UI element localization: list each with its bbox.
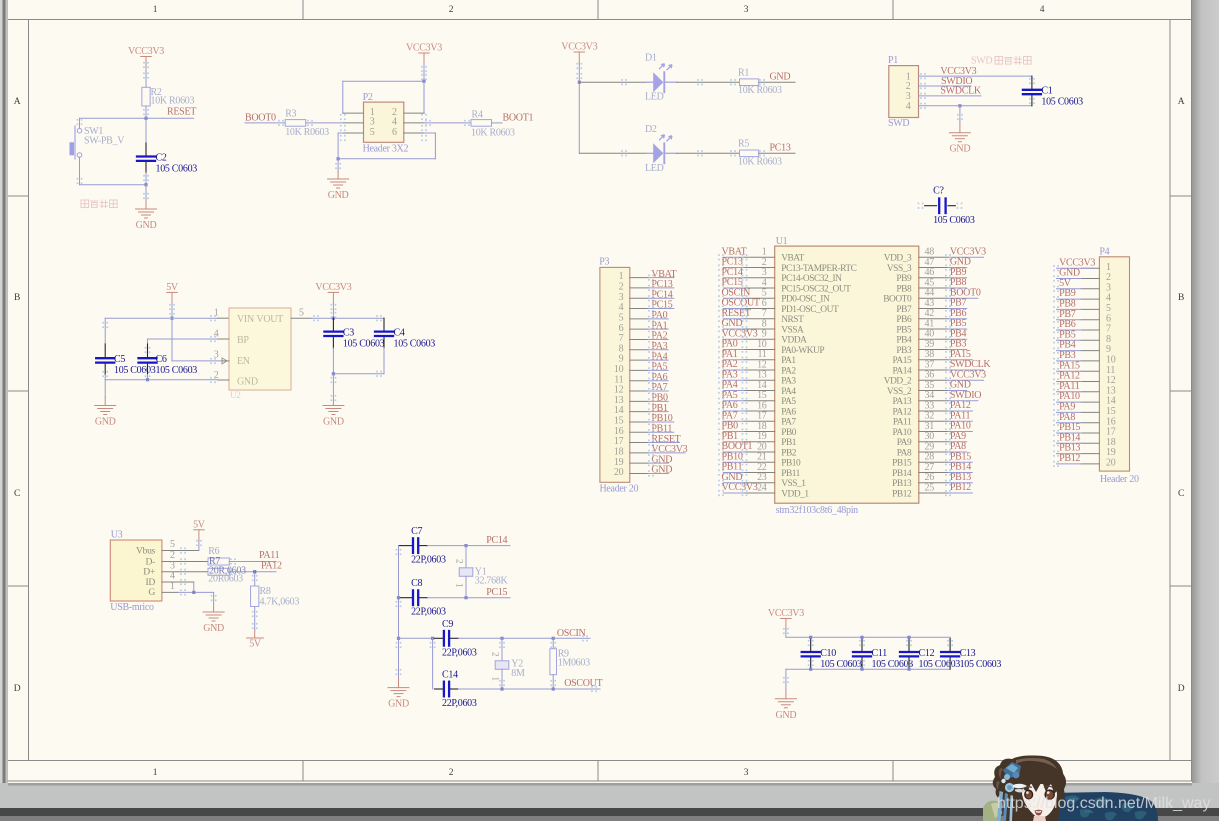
svg-text:PB11: PB11: [781, 469, 800, 479]
svg-text:D: D: [14, 684, 21, 694]
svg-text:C?: C?: [933, 186, 944, 197]
svg-text:ID: ID: [145, 577, 155, 588]
svg-text:PA3: PA3: [781, 377, 796, 387]
svg-text:C8: C8: [411, 578, 422, 589]
svg-text:PA4: PA4: [781, 387, 796, 397]
svg-text:VSS_3: VSS_3: [887, 264, 912, 274]
svg-text:105 C0603: 105 C0603: [933, 215, 975, 226]
svg-text:4: 4: [170, 571, 175, 582]
svg-text:PC15: PC15: [486, 587, 507, 598]
svg-text:SWDCLK: SWDCLK: [940, 86, 982, 97]
svg-text:BOOT1: BOOT1: [503, 113, 534, 124]
svg-text:PB9: PB9: [896, 274, 912, 284]
svg-text:1: 1: [491, 677, 501, 681]
svg-text:C9: C9: [442, 619, 453, 630]
svg-text:P1: P1: [888, 55, 898, 66]
svg-text:105 C0603: 105 C0603: [820, 659, 862, 670]
svg-text:GND: GND: [770, 71, 791, 82]
svg-text:GND: GND: [950, 144, 971, 155]
svg-text:3: 3: [744, 5, 749, 15]
svg-text:C13: C13: [960, 648, 976, 659]
svg-text:2: 2: [449, 768, 454, 778]
svg-text:GND: GND: [95, 417, 116, 428]
svg-text:105 C0603: 105 C0603: [919, 659, 961, 670]
svg-text:105 C0603: 105 C0603: [156, 163, 198, 174]
svg-text:1: 1: [153, 768, 158, 778]
svg-text:PB14: PB14: [892, 469, 912, 479]
svg-text:32.768K: 32.768K: [475, 576, 509, 587]
svg-text:5V: 5V: [166, 282, 179, 293]
svg-text:PD0-OSC_IN: PD0-OSC_IN: [781, 295, 830, 305]
svg-text:GND: GND: [323, 417, 344, 428]
svg-text:4.7K,0603: 4.7K,0603: [260, 596, 300, 607]
svg-text:D: D: [1178, 684, 1185, 694]
svg-text:VDD_1: VDD_1: [781, 489, 809, 499]
svg-text:2: 2: [455, 559, 465, 563]
svg-text:1: 1: [455, 583, 465, 587]
svg-text:LED: LED: [645, 92, 664, 103]
svg-text:PB15: PB15: [892, 459, 912, 469]
svg-text:10K R0603: 10K R0603: [151, 96, 195, 107]
svg-text:NRST: NRST: [781, 315, 804, 325]
svg-text:SWD: SWD: [888, 118, 909, 129]
svg-text:BOOT0: BOOT0: [245, 113, 276, 124]
svg-text:VCC3V3: VCC3V3: [722, 482, 758, 493]
svg-text:VCC3V3: VCC3V3: [561, 42, 597, 53]
svg-text:10K R0603: 10K R0603: [285, 127, 329, 138]
svg-text:105 C0603: 105 C0603: [156, 365, 198, 376]
svg-text:G: G: [148, 587, 155, 598]
svg-text:5V: 5V: [249, 639, 262, 650]
svg-text:105 C0603: 105 C0603: [960, 659, 1002, 670]
svg-text:PA12: PA12: [892, 407, 911, 417]
svg-text:PA6: PA6: [781, 407, 796, 417]
svg-text:VDD_3: VDD_3: [884, 254, 912, 264]
svg-text:C7: C7: [411, 526, 422, 537]
svg-text:Header 20: Header 20: [600, 484, 639, 495]
svg-text:D1: D1: [645, 53, 657, 64]
svg-text:PB6: PB6: [896, 315, 912, 325]
svg-text:5: 5: [370, 127, 375, 138]
svg-text:Vbus: Vbus: [136, 545, 156, 556]
svg-text:4: 4: [1040, 5, 1045, 15]
svg-text:GND: GND: [651, 465, 672, 476]
svg-text:Header 3X2: Header 3X2: [363, 144, 409, 155]
svg-text:20: 20: [1106, 458, 1116, 469]
svg-text:PA14: PA14: [892, 366, 911, 376]
svg-text:20R0603: 20R0603: [208, 574, 243, 585]
svg-text:PB8: PB8: [896, 284, 912, 294]
svg-text:U2: U2: [230, 390, 240, 400]
svg-text:D2: D2: [645, 124, 657, 135]
svg-text:SWD: SWD: [971, 56, 992, 67]
svg-text:VIN: VIN: [237, 314, 254, 325]
svg-text:8M: 8M: [511, 668, 525, 679]
svg-text:R4: R4: [472, 110, 483, 121]
svg-text:PA11: PA11: [259, 550, 280, 561]
svg-text:VCC3V3: VCC3V3: [406, 43, 442, 54]
svg-text:VCC3V3: VCC3V3: [315, 282, 351, 293]
svg-text:C3: C3: [343, 327, 354, 338]
svg-text:PB13: PB13: [892, 479, 912, 489]
svg-text:PA11: PA11: [893, 418, 912, 428]
svg-text:3: 3: [744, 768, 749, 778]
svg-text:10K R0603: 10K R0603: [471, 127, 515, 138]
svg-text:5V: 5V: [193, 519, 206, 530]
svg-text:22P,0603: 22P,0603: [442, 647, 477, 658]
svg-text:PC15-OSC32_OUT: PC15-OSC32_OUT: [781, 284, 851, 294]
svg-text:VCC3V3: VCC3V3: [128, 46, 164, 57]
svg-text:U3: U3: [111, 530, 123, 541]
svg-text:5: 5: [170, 539, 175, 550]
svg-text:VOUT: VOUT: [256, 314, 283, 325]
svg-text:PA10: PA10: [892, 428, 911, 438]
svg-text:VBAT: VBAT: [781, 254, 804, 264]
svg-text:GND: GND: [237, 377, 258, 388]
svg-text:PB0: PB0: [781, 428, 797, 438]
svg-text:PA8: PA8: [897, 448, 912, 458]
svg-text:PB12: PB12: [892, 489, 912, 499]
svg-text:C11: C11: [872, 648, 888, 659]
svg-text:U1: U1: [776, 236, 788, 247]
svg-text:PA15: PA15: [892, 356, 911, 366]
svg-text:1M0603: 1M0603: [558, 658, 590, 669]
svg-text:P2: P2: [363, 92, 373, 103]
svg-text:10K R0603: 10K R0603: [738, 85, 782, 96]
svg-text:5: 5: [299, 308, 304, 319]
svg-text:A: A: [1178, 97, 1185, 107]
svg-text:B: B: [1178, 293, 1184, 303]
svg-text:GND: GND: [203, 623, 224, 634]
svg-text:https://blog.csdn.net/Milk_way: https://blog.csdn.net/Milk_way: [997, 795, 1210, 812]
svg-text:C2: C2: [156, 152, 167, 163]
svg-text:PA0-WKUP: PA0-WKUP: [781, 346, 824, 356]
svg-text:22P,0603: 22P,0603: [411, 555, 446, 566]
svg-text:C10: C10: [820, 648, 836, 659]
svg-text:1: 1: [214, 308, 219, 319]
svg-text:PC13: PC13: [770, 143, 791, 154]
svg-text:LED: LED: [645, 163, 664, 174]
svg-text:25: 25: [925, 482, 935, 493]
svg-text:USB-mrico: USB-mrico: [110, 602, 154, 613]
svg-text:BP: BP: [237, 335, 249, 346]
svg-text:22P,0603: 22P,0603: [442, 698, 477, 709]
svg-text:2: 2: [491, 652, 501, 656]
svg-text:PA12: PA12: [261, 561, 282, 572]
svg-text:1: 1: [153, 5, 158, 15]
svg-text:EN: EN: [237, 356, 250, 367]
svg-text:C4: C4: [394, 327, 405, 338]
svg-text:SW-PB_V: SW-PB_V: [84, 136, 125, 147]
svg-text:105 C0603: 105 C0603: [1041, 97, 1083, 108]
svg-text:R1: R1: [738, 67, 749, 78]
svg-text:PB10: PB10: [781, 459, 801, 469]
svg-text:PB12: PB12: [1059, 453, 1080, 464]
svg-text:105 C0603: 105 C0603: [394, 338, 436, 349]
svg-text:RESET: RESET: [167, 107, 196, 118]
svg-text:Header 20: Header 20: [1100, 474, 1139, 485]
svg-text:GND: GND: [136, 220, 157, 231]
svg-text:24: 24: [757, 482, 767, 493]
svg-text:P4: P4: [1099, 247, 1109, 258]
svg-text:BOOT0: BOOT0: [883, 295, 912, 305]
svg-text:4: 4: [906, 101, 911, 112]
svg-text:PB2: PB2: [781, 448, 797, 458]
svg-text:PA1: PA1: [781, 356, 796, 366]
svg-text:1: 1: [170, 581, 175, 592]
svg-text:C1: C1: [1041, 86, 1052, 97]
svg-text:VSSA: VSSA: [781, 325, 804, 335]
svg-text:R3: R3: [285, 109, 296, 120]
svg-text:PB4: PB4: [896, 336, 912, 346]
svg-text:C12: C12: [919, 648, 935, 659]
svg-text:PD1-OSC_OUT: PD1-OSC_OUT: [781, 305, 839, 315]
svg-text:PB12: PB12: [950, 482, 971, 493]
svg-text:VSS_1: VSS_1: [781, 479, 806, 489]
svg-text:PA7: PA7: [781, 418, 796, 428]
svg-text:stm32f103c8t6_48pin: stm32f103c8t6_48pin: [776, 505, 858, 516]
svg-text:OSCIN: OSCIN: [557, 628, 586, 639]
svg-text:GND: GND: [776, 710, 797, 721]
svg-text:10K R0603: 10K R0603: [738, 156, 782, 167]
svg-text:22P,0603: 22P,0603: [411, 607, 446, 618]
svg-text:C14: C14: [442, 670, 458, 681]
svg-text:2: 2: [449, 5, 454, 15]
svg-text:C: C: [1178, 489, 1184, 499]
svg-text:A: A: [14, 97, 21, 107]
svg-text:105 C0603: 105 C0603: [114, 365, 156, 376]
svg-text:C: C: [14, 489, 20, 499]
svg-text:C6: C6: [156, 354, 167, 365]
svg-text:C5: C5: [114, 354, 125, 365]
svg-text:GND: GND: [328, 190, 349, 201]
svg-text:B: B: [14, 293, 20, 303]
svg-text:6: 6: [392, 127, 397, 138]
svg-text:R5: R5: [738, 139, 749, 150]
svg-text:VSS_2: VSS_2: [887, 387, 912, 397]
svg-text:20: 20: [614, 467, 624, 478]
svg-text:VDD_2: VDD_2: [884, 377, 912, 387]
svg-text:P3: P3: [599, 257, 609, 268]
svg-text:GND: GND: [388, 699, 409, 710]
svg-text:PC13-TAMPER-RTC: PC13-TAMPER-RTC: [781, 264, 856, 274]
svg-text:PB3: PB3: [896, 346, 912, 356]
svg-text:105 C0603: 105 C0603: [343, 338, 385, 349]
svg-text:PC14: PC14: [486, 535, 507, 546]
svg-text:VDDA: VDDA: [781, 336, 807, 346]
svg-text:VCC3V3: VCC3V3: [768, 608, 804, 619]
svg-text:PB7: PB7: [896, 305, 912, 315]
svg-text:PB1: PB1: [781, 438, 797, 448]
svg-text:PB5: PB5: [896, 325, 912, 335]
svg-text:PA9: PA9: [897, 438, 912, 448]
svg-text:PA5: PA5: [781, 397, 796, 407]
svg-text:4: 4: [214, 329, 219, 340]
svg-text:PA2: PA2: [781, 366, 796, 376]
svg-text:PA13: PA13: [892, 397, 911, 407]
svg-text:PC14-OSC32_IN: PC14-OSC32_IN: [781, 274, 842, 284]
